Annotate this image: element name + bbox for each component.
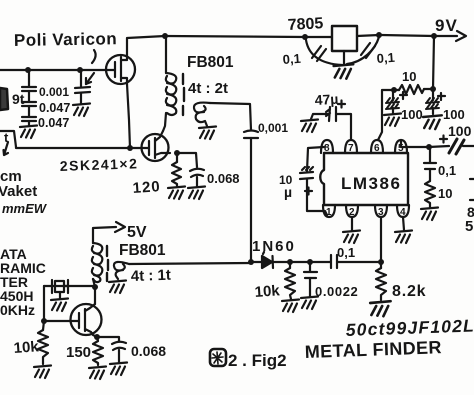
svg-text:10: 10 [402, 69, 416, 84]
svg-text:10: 10 [438, 186, 452, 201]
pin 8 [321, 140, 333, 154]
resistor R 10k (detector) [254, 262, 295, 301]
wire: to pin6 riser [378, 90, 394, 140]
wire: 7805 gnd pin [343, 51, 345, 64]
capacitor 0.047 (lower) [22, 106, 69, 130]
figure stamp icon [210, 349, 226, 366]
node output [426, 144, 432, 150]
svg-text:10k: 10k [13, 338, 40, 357]
varicap VC1 [75, 70, 94, 104]
svg-text:mmEW: mmEW [2, 201, 48, 216]
capacitor 0.001 coupling [244, 121, 288, 138]
resistor R 120 [132, 153, 181, 197]
svg-text:0.0022: 0.0022 [315, 284, 358, 299]
ground (10k Q3) [34, 366, 51, 379]
ground (R120) [168, 187, 185, 200]
pin 4 [397, 205, 409, 218]
svg-text:10k: 10k [254, 282, 281, 301]
label 5V with arrow [93, 222, 147, 243]
ground (cap stack) [20, 126, 37, 139]
capacitor 0.1 (7805 output) [347, 37, 395, 66]
ground (0.0022) [301, 297, 318, 310]
svg-text:5: 5 [465, 218, 473, 235]
ground (0.068 Q3) [110, 363, 127, 376]
svg-text:0KHz: 0KHz [0, 302, 35, 318]
pin 1 [323, 205, 335, 218]
capacitor 0.0022 [304, 262, 358, 299]
svg-text:5V: 5V [127, 224, 147, 241]
transformer T2 FB801 primary [92, 243, 102, 287]
svg-text:100: 100 [401, 107, 423, 122]
wire: pin2 to ground [351, 217, 353, 230]
capacitor 100u (left) [386, 90, 423, 122]
transformer T2 secondary [114, 262, 129, 279]
ground (8.2k) [370, 301, 390, 316]
svg-text:150: 150 [66, 344, 91, 361]
wire: Q1 drain to top rail [127, 36, 165, 55]
capacitor 0.068 (Q2 source) [190, 169, 240, 186]
ground (pin2) [343, 231, 360, 244]
capacitor 0.1 (zobel) [424, 147, 456, 181]
capacitor 100u (right) [426, 89, 465, 122]
pin 3 [375, 205, 387, 218]
node R10 right [430, 86, 436, 92]
svg-text:0,1: 0,1 [438, 163, 456, 178]
ground (ceramic filter) [51, 299, 68, 312]
node T1 primary top [162, 33, 168, 39]
resistor R 10k (Q3 gate) [13, 321, 48, 364]
ground (10k detector) [282, 300, 299, 313]
svg-text:4t : 2t: 4t : 2t [188, 80, 228, 97]
node 0.0022 [307, 259, 313, 265]
pin 7 [345, 140, 357, 154]
ground (zobel) [421, 208, 438, 221]
transformer T1 FB801 primary [163, 36, 176, 131]
resistor R 10 (supply) [394, 69, 433, 94]
capacitor 0.047 (upper) [22, 91, 70, 115]
ground (T1 secondary) [199, 127, 216, 140]
transistor Q2 2SK241 [142, 131, 171, 161]
svg-text:0,001: 0,001 [258, 121, 288, 135]
node Q1 source / Q2 gate [127, 145, 133, 151]
svg-text:1N60: 1N60 [252, 238, 296, 255]
node R10 left [391, 87, 397, 93]
transformer T1 secondary [194, 103, 210, 126]
node T2 primary bottom [92, 284, 98, 290]
ground (varicap) [73, 104, 90, 117]
svg-text:0.047: 0.047 [38, 116, 69, 130]
svg-text:0.068: 0.068 [207, 171, 240, 186]
regulator U2 7805 box [332, 26, 357, 51]
svg-text:0.001: 0.001 [39, 85, 69, 99]
svg-text:100: 100 [443, 107, 465, 122]
svg-text:FB801: FB801 [187, 54, 234, 71]
wire: filter line [52, 285, 95, 287]
node 8.2k [378, 259, 384, 265]
svg-text:µ: µ [284, 184, 292, 200]
wire: top rail to 7805 [165, 36, 332, 37]
capacitor 100u output (slashed) [429, 123, 474, 154]
node Q3 gate [41, 318, 47, 324]
node 9V branch [431, 33, 437, 39]
svg-text:0.047: 0.047 [39, 101, 70, 115]
ground (R150) [89, 367, 106, 380]
svg-text:8: 8 [324, 143, 330, 154]
capacitor 0.001 [22, 70, 69, 99]
wire: left rail to Q1 gate [0, 69, 106, 71]
wire: pin4 to ground [403, 217, 404, 230]
ground (100u left) [384, 114, 401, 127]
svg-text:100: 100 [448, 123, 472, 139]
ceramic filter CF1 [44, 280, 68, 299]
transformer T2 core [107, 246, 108, 281]
capacitor 47u [311, 101, 351, 140]
wire: detector line to cap [290, 261, 330, 263]
node at cap stack [25, 67, 31, 73]
svg-text:8.2k: 8.2k [392, 283, 426, 300]
resistor R 8.2k [376, 262, 426, 300]
node coupling to detector [248, 259, 254, 265]
speaker fragment at right edge [465, 179, 474, 235]
transformer T1 core [183, 74, 184, 115]
svg-text:120: 120 [132, 178, 161, 197]
svg-text:FB801: FB801 [119, 242, 166, 259]
node Q3 source [94, 334, 100, 340]
wire: pin3 to detector line [380, 217, 382, 262]
svg-text:7805: 7805 [287, 15, 324, 34]
op-amp U1 LM386 body [320, 153, 408, 205]
wire: pin5 to output node [401, 140, 429, 147]
wire: 7805 output to 9V [357, 35, 457, 36]
ground (7805) [334, 64, 354, 78]
ground (pin4) [395, 231, 412, 244]
transistor Q1 2SK241 [106, 55, 135, 84]
wire: gate node to Q3 [44, 320, 70, 322]
label Poli Varicon [14, 29, 118, 63]
capacitor 0.068 (Q3 source) [97, 337, 166, 362]
node 7805 output cap [376, 32, 382, 38]
svg-text:LM386: LM386 [341, 174, 401, 193]
coil L2 4t box (cut at edge) [0, 130, 16, 147]
wire: Q2 source to 0.068 [177, 153, 197, 167]
node at varicap [77, 67, 83, 73]
svg-text:Vaket: Vaket [0, 183, 37, 200]
wire: Q1 source down to Q2 gate node [127, 84, 130, 148]
transistor Q3 JFET [70, 304, 102, 337]
capacitor 0.1 (detector coupling) [331, 245, 381, 268]
coil L1 9t (cut at edge) [0, 88, 25, 110]
svg-text:47µ: 47µ [314, 91, 338, 108]
svg-text:9V: 9V [435, 16, 458, 35]
resistor R 150 [66, 337, 103, 365]
node 7805 input [302, 34, 308, 40]
svg-text:6: 6 [374, 143, 380, 154]
wire: Q3 drain riser [94, 287, 96, 304]
ground (100u right) [423, 115, 442, 129]
pin 6 [371, 140, 383, 154]
capacitor 0.1 (7805 input) [282, 40, 342, 67]
resistor R 10 (zobel) [425, 181, 452, 207]
pin 5 [395, 140, 407, 154]
wire: T2 secondary to detector node [129, 263, 251, 264]
svg-text:4t : 1t: 4t : 1t [131, 267, 172, 285]
svg-text:2SK241×2: 2SK241×2 [60, 155, 139, 174]
svg-text:0,1: 0,1 [337, 245, 355, 260]
ground (T2 secondary) [109, 281, 126, 294]
wire: coupling cap down to detector line [250, 138, 252, 262]
ground (0.068 Q2) [188, 187, 205, 200]
wire: 9V down to R10 [433, 36, 434, 89]
wire: coil to Q2 gate [16, 147, 142, 148]
capacitor 10u (pin1-pin8) [279, 147, 327, 215]
node 10k [287, 259, 293, 265]
svg-text:Poli Varicon: Poli Varicon [14, 29, 118, 50]
wire: T1 secondary to coupling cap [210, 103, 251, 130]
svg-text:0.068: 0.068 [131, 343, 166, 359]
svg-text:9t: 9t [12, 91, 25, 107]
diode D1 1N60 [251, 238, 296, 268]
label 9V with arrow [435, 16, 466, 41]
svg-text:7: 7 [348, 143, 354, 154]
svg-text:0,1: 0,1 [282, 51, 301, 67]
svg-text:0,1: 0,1 [376, 50, 395, 66]
arrow mark on coil [4, 142, 9, 155]
node Q2 source [174, 150, 180, 156]
svg-text:2 . Fig2: 2 . Fig2 [228, 351, 287, 370]
ground (47u) [301, 120, 318, 133]
pin 2 [346, 205, 358, 218]
